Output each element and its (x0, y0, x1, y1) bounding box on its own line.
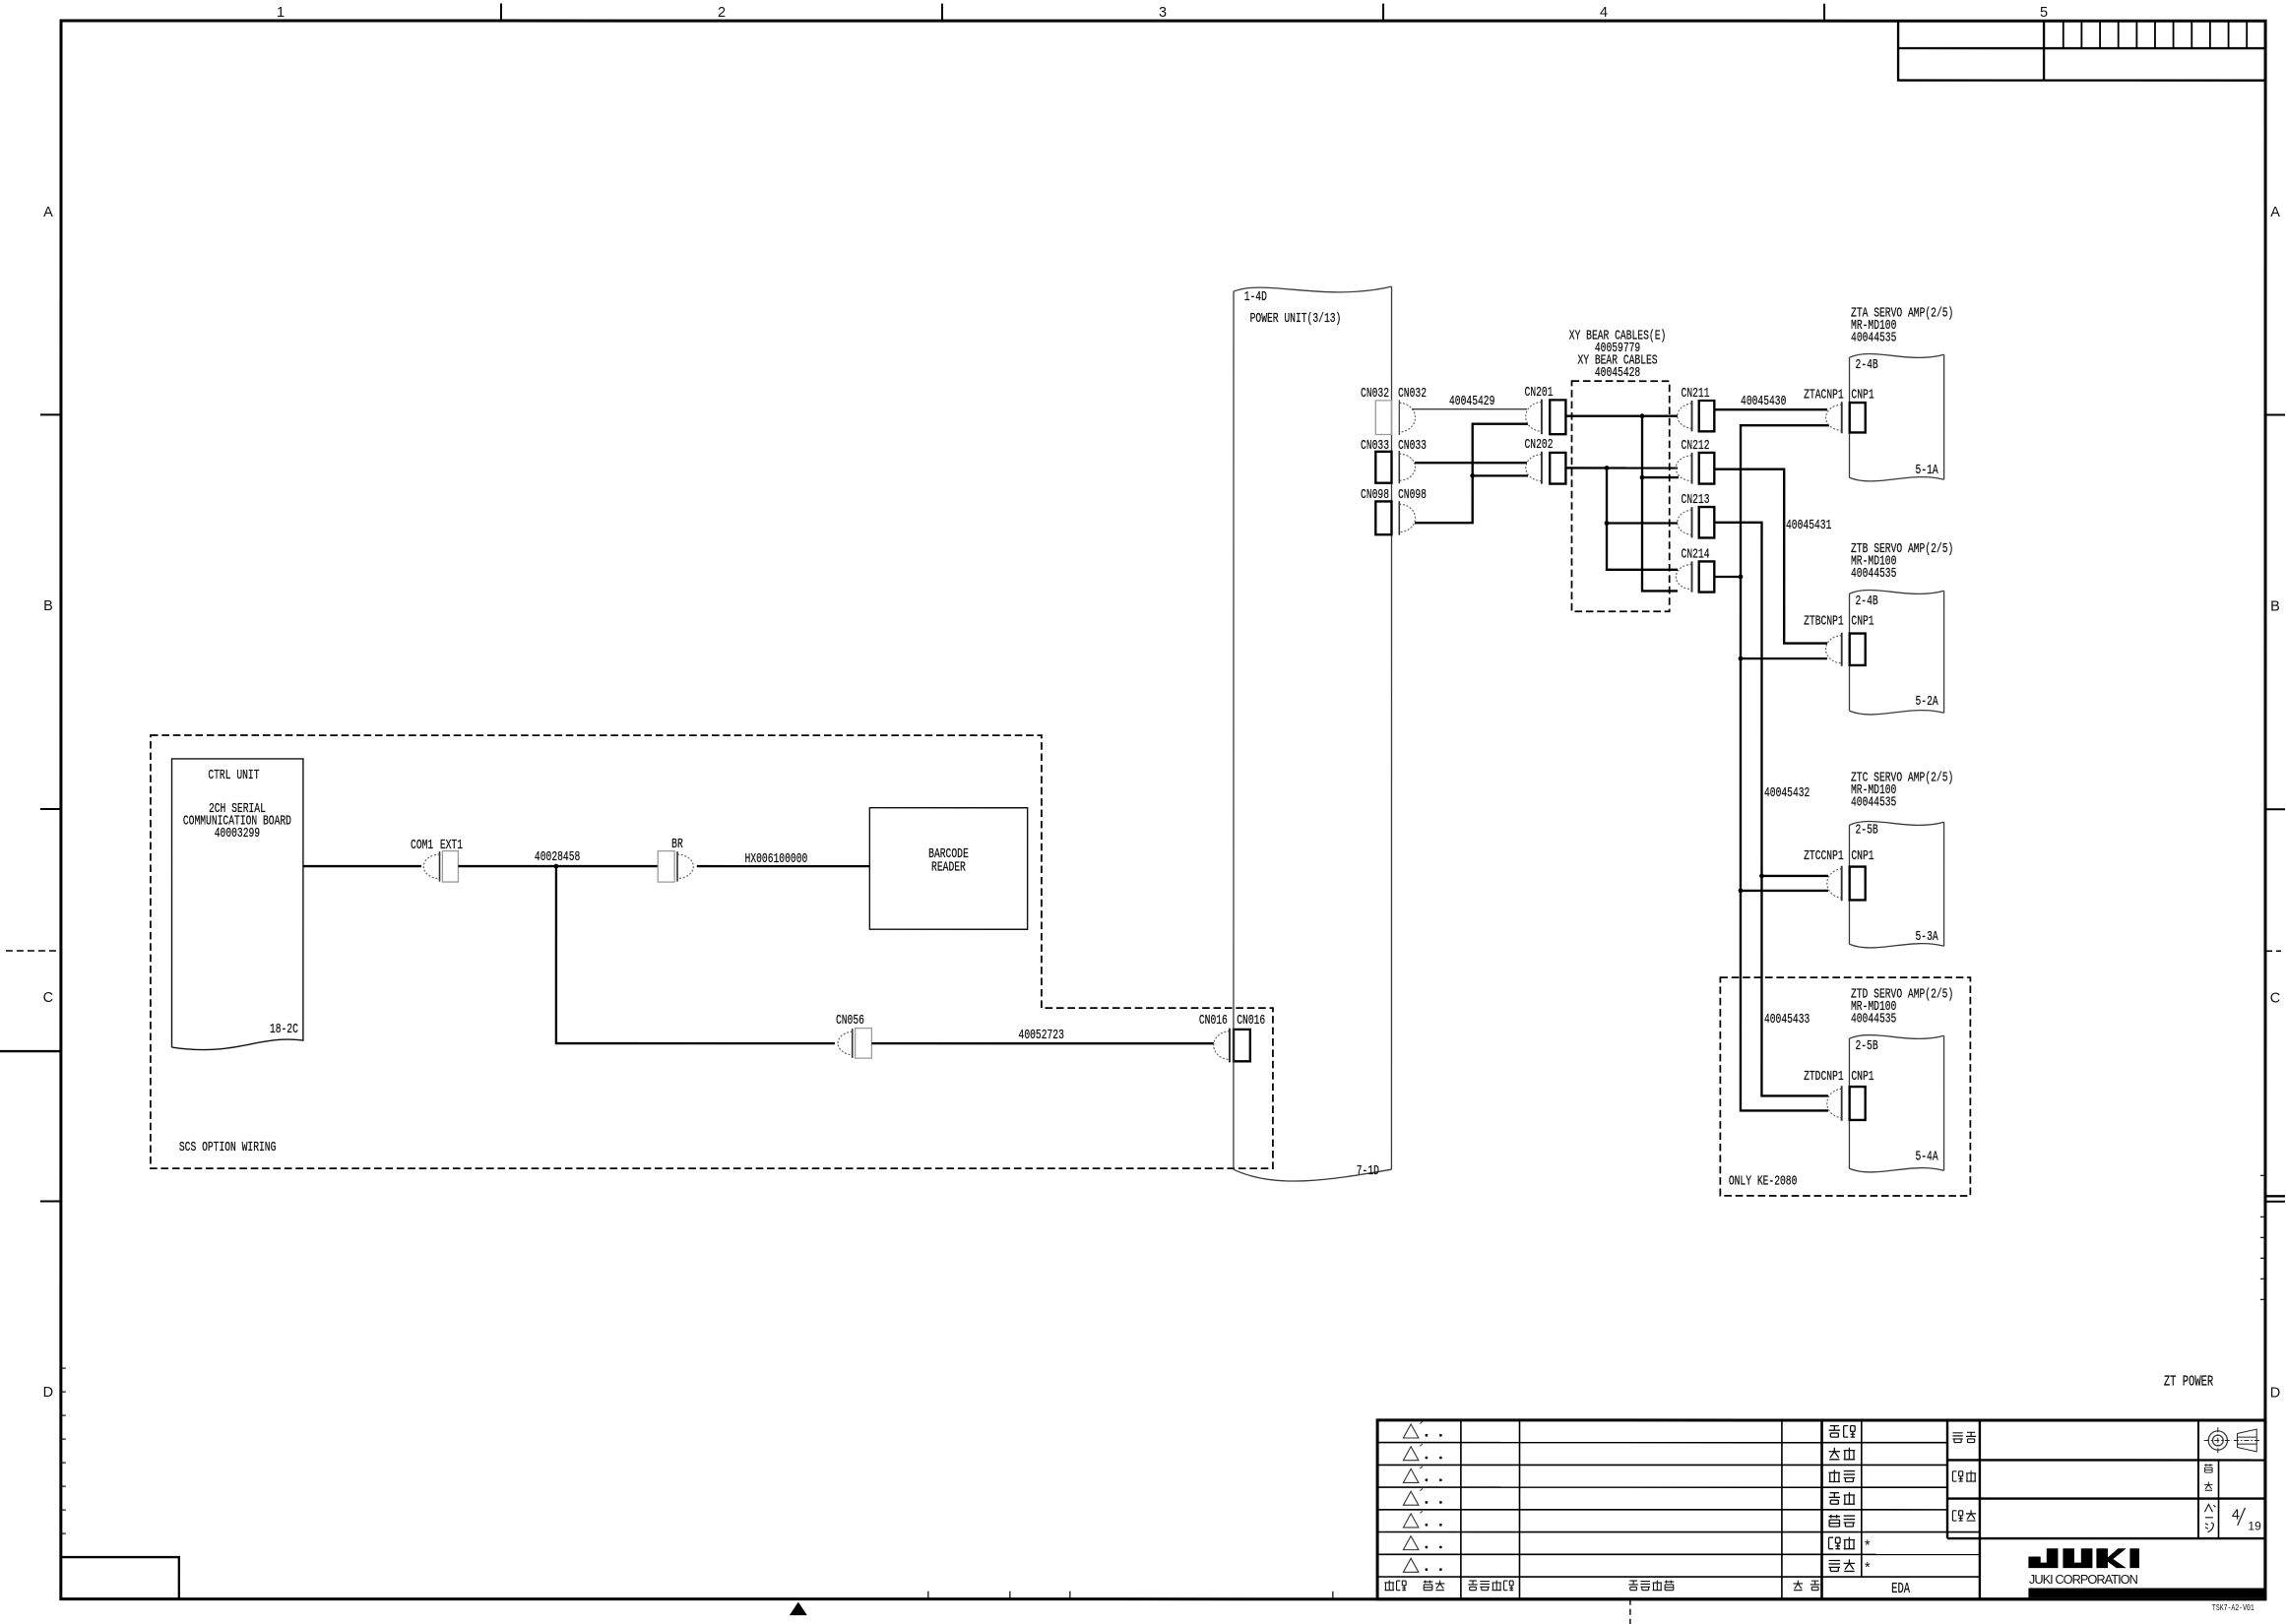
wire branch to CN202 lower contact (1473, 474, 1528, 476)
JUKI logo letter K (2096, 1548, 2108, 1568)
svg-text:CN212: CN212 (1682, 438, 1710, 454)
approval table column lines (1861, 1420, 1863, 1577)
bottom dashed registration line (1629, 1599, 1631, 1624)
connector CN211 (cable side) (1699, 401, 1715, 431)
bottom border ticks (927, 1592, 929, 1599)
svg-text:CNP1: CNP1 (1851, 848, 1873, 864)
svg-text:5-2A: 5-2A (1916, 694, 1939, 710)
revision triangle row 1 (1403, 1424, 1419, 1438)
connector CN033 (cable side) (1399, 454, 1415, 480)
wire branch to CN212 lower contact (1642, 476, 1679, 478)
svg-text:40045429: 40045429 (1449, 394, 1494, 409)
svg-text:CN016: CN016 (1199, 1013, 1228, 1029)
part info label 品名 (1952, 1511, 1962, 1521)
node junction dot ZTC upper branch (1759, 874, 1764, 879)
ZTA SERVO AMP box (wavy top/bottom) (1850, 354, 1944, 481)
svg-text:2-4B: 2-4B (1856, 357, 1878, 373)
svg-text:5-4A: 5-4A (1915, 1149, 1938, 1164)
fold mark solid right (2265, 1195, 2285, 1197)
revision date dots row 7 (1425, 1568, 1428, 1571)
svg-text:4: 4 (2232, 1507, 2240, 1523)
svg-text:40045431: 40045431 (1786, 518, 1831, 533)
svg-text:CN056: CN056 (836, 1013, 864, 1029)
connector CN212 (cable side) (1699, 453, 1715, 484)
svg-text:7-1D: 7-1D (1357, 1163, 1379, 1179)
connector CNP1 on ZTA (1850, 403, 1866, 432)
connector CN098 (cable side) (1399, 504, 1415, 531)
svg-text:CN202: CN202 (1525, 437, 1554, 453)
connector CN032 (unit side, reference/thin) (1375, 401, 1391, 435)
svg-text:CN211: CN211 (1682, 386, 1710, 402)
svg-text:C: C (43, 990, 53, 1006)
connector CN214 (cable side) (1699, 561, 1715, 592)
revision date dots row 1 (1426, 1434, 1429, 1437)
revision triangle row 3 (1403, 1468, 1419, 1482)
svg-text:B: B (43, 598, 53, 614)
node junction dot ZTC lower branch (1739, 889, 1744, 894)
ZTD SERVO AMP box (wavy top/bottom) (1849, 1035, 1943, 1172)
wire branch to ZTCCNP1 lower contact (1741, 890, 1828, 892)
JUKI logo letter U (2063, 1548, 2092, 1568)
svg-text:SCS OPTION WIRING: SCS OPTION WIRING (179, 1139, 277, 1155)
node junction dot CN214 wire (1739, 575, 1744, 580)
connector CN033 (unit side) (1375, 452, 1391, 483)
ONLY KE-2080 dashed box (1720, 977, 1970, 1196)
svg-text:CNP1: CNP1 (1851, 613, 1873, 629)
connector CN201 (cable side) (1526, 403, 1542, 432)
ruler ticks left border (61, 1367, 66, 1369)
svg-text:*: * (1865, 1559, 1871, 1576)
svg-text:CN201: CN201 (1525, 385, 1554, 401)
JUKI logo letter J (2028, 1548, 2058, 1568)
svg-text:2-5B: 2-5B (1855, 1038, 1877, 1054)
svg-text:40044535: 40044535 (1851, 565, 1896, 581)
svg-text:40045428: 40045428 (1595, 365, 1640, 381)
revision table header 変更記事 (1628, 1581, 1638, 1591)
svg-text:CNP1: CNP1 (1851, 1069, 1873, 1085)
revision date dots row 6 (1425, 1546, 1428, 1549)
revision date dots row 4 (1425, 1501, 1428, 1504)
approval table label 類似 (1829, 1560, 1841, 1571)
revision triangle row 7 (1403, 1558, 1419, 1572)
revision date dots row 2 (1426, 1457, 1429, 1460)
svg-text:COM1: COM1 (411, 837, 433, 852)
approval table label 保管 (1829, 1537, 1841, 1549)
connector CN214 (harness side) (1676, 564, 1691, 589)
JUKI black bar (2028, 1588, 2264, 1597)
svg-text:ZTDCNP1: ZTDCNP1 (1804, 1069, 1844, 1085)
svg-text:ZTCCNP1: ZTCCNP1 (1804, 848, 1844, 864)
JUKI logo letter I (2129, 1548, 2139, 1568)
connector ZTDCNP1 (1827, 1089, 1842, 1118)
connector CN202 (cable side) (1526, 455, 1542, 481)
revision date dots row 5 (1425, 1524, 1428, 1527)
wire CN056 to CN016 (871, 1042, 1214, 1044)
svg-text:CN214: CN214 (1682, 546, 1710, 562)
connector CN098 (unit side) (1375, 501, 1391, 534)
wire CN212 to ZTBCNP1 (cable 40045431) (1714, 469, 1827, 644)
node junction dot CN213 branch (1605, 521, 1610, 526)
SCS OPTION WIRING dashed boundary (151, 735, 1273, 1168)
revision table header 担当 (1794, 1581, 1804, 1591)
wire vertical bus x=1668 (1642, 416, 1678, 592)
svg-text:2-4B: 2-4B (1856, 593, 1878, 609)
approval table label 製図 (1829, 1493, 1841, 1505)
row zone ticks (right border) (2265, 414, 2285, 416)
connector CNP1 on ZTC (1850, 867, 1866, 901)
svg-text:CTRL UNIT: CTRL UNIT (208, 767, 259, 782)
third angle projection symbol circles (2208, 1431, 2227, 1450)
top-right revision strip table (1898, 21, 2265, 80)
wire CN214 to bus (1714, 576, 1741, 578)
connector COM1 (423, 854, 439, 879)
connector ZTCCNP1 (1827, 869, 1842, 899)
wire branch down from junction to CN056 (556, 866, 835, 1043)
svg-text:HX006100000: HX006100000 (745, 851, 808, 867)
svg-text:CN032: CN032 (1398, 386, 1427, 402)
node junction dot CN202 branch (1470, 473, 1475, 478)
wire CN213 to ZTC/ZTD upper contacts (cables 40045432/40045433) (1714, 523, 1828, 1096)
revision table header 記号 (1384, 1581, 1394, 1592)
connector CN202 (harness side) (1550, 453, 1565, 484)
svg-text:A: A (2270, 205, 2280, 220)
approval table row lines (1822, 1442, 1948, 1444)
svg-text:5-1A: 5-1A (1916, 463, 1939, 478)
svg-text:CN098: CN098 (1398, 487, 1427, 503)
svg-text:40052723: 40052723 (1019, 1028, 1064, 1043)
connector CN016 (power unit side) (1234, 1030, 1250, 1061)
svg-text:A: A (43, 205, 53, 220)
POWER UNIT outline (wavy top and bottom) (1234, 286, 1392, 1181)
revision table row lines (1377, 1442, 1821, 1444)
svg-text:ONLY KE-2080: ONLY KE-2080 (1729, 1173, 1798, 1189)
connector CN056 (838, 1031, 853, 1055)
approval table label 作成 (1829, 1515, 1841, 1527)
svg-text:CN033: CN033 (1361, 437, 1389, 453)
part info section row lines (1947, 1459, 2265, 1461)
svg-text:ZTACNP1: ZTACNP1 (1804, 387, 1844, 403)
title block outer frame (1377, 1420, 2265, 1599)
svg-text:BR: BR (671, 837, 683, 852)
svg-text:EDA: EDA (1891, 1580, 1910, 1596)
svg-text:C: C (2270, 990, 2280, 1006)
connector CN211 (harness side) (1678, 404, 1692, 428)
revision triangle row 6 (1403, 1536, 1419, 1550)
revision triangle row 4 (1403, 1491, 1419, 1505)
approval table label 検図 (1829, 1448, 1841, 1460)
revision table header 変更番号 (1468, 1581, 1478, 1591)
revision triangle row 5 (1403, 1514, 1419, 1528)
svg-text:40003299: 40003299 (215, 825, 260, 841)
bottom center registration triangle (790, 1602, 807, 1616)
page label ページ (vertical katakana) (2204, 1504, 2215, 1512)
wire branch to ZTBCNP1 lower contact (1741, 657, 1827, 659)
svg-text:40045430: 40045430 (1741, 394, 1786, 409)
svg-text:CN016: CN016 (1237, 1013, 1265, 1029)
svg-text:3: 3 (1159, 5, 1167, 21)
connector CN016 (cable side) (1214, 1031, 1230, 1060)
svg-text:1-4D: 1-4D (1244, 289, 1267, 305)
svg-text:CN213: CN213 (1682, 492, 1710, 508)
svg-text:5-3A: 5-3A (1915, 929, 1938, 945)
part info label 品番 (1952, 1471, 1962, 1481)
svg-text:ZT POWER: ZT POWER (2164, 1373, 2214, 1390)
revision triangle row 2 (1403, 1447, 1419, 1461)
svg-text:READER: READER (931, 859, 966, 875)
wire CN032 to CN201 (cable 40045429) (1412, 408, 1527, 410)
connector CNP1 on ZTB (1850, 634, 1866, 665)
svg-text:40045432: 40045432 (1764, 785, 1810, 801)
wire vertical bus x=1632 (1607, 468, 1678, 569)
approval table label 承認 (1829, 1426, 1841, 1438)
node junction dot CN212 lower branch (1640, 475, 1645, 480)
svg-text:CN032: CN032 (1361, 386, 1389, 402)
svg-text:40044535: 40044535 (1851, 1011, 1896, 1027)
svg-text:D: D (2270, 1385, 2280, 1401)
wire CTRL UNIT to COM1 (303, 865, 421, 867)
fold mark dashed left (6, 950, 61, 952)
approval table label 設計 (1829, 1469, 1841, 1482)
wire CN211 to ZTACNP1 (cable 40045430) (1714, 408, 1827, 410)
revision table header 日付 (1424, 1581, 1433, 1591)
svg-text:POWER UNIT(3/13): POWER UNIT(3/13) (1250, 311, 1342, 327)
projection symbol cone (2238, 1429, 2257, 1452)
wire EXT1 to BR with junction (458, 865, 658, 867)
scale label 尺度 (2204, 1464, 2212, 1472)
svg-text:40044535: 40044535 (1851, 330, 1896, 345)
svg-text:40044535: 40044535 (1851, 794, 1896, 810)
svg-text:4: 4 (1600, 5, 1608, 21)
projection symbol crosshair (2217, 1427, 2219, 1453)
wire branch to ZTCCNP1 upper contact (1761, 875, 1828, 877)
wire CN201 to CN211 (1565, 415, 1678, 417)
svg-text:B: B (2270, 598, 2280, 614)
column zone ticks (top border) (500, 4, 502, 22)
fold mark solid left (0, 1050, 61, 1052)
svg-text:5: 5 (2040, 5, 2048, 21)
connector ZTBCNP1 (1826, 636, 1842, 663)
XY BEAR CABLES dashed box (1571, 381, 1669, 611)
wire branch to CN213 contact (1607, 522, 1678, 524)
connector CN213 (harness side) (1678, 510, 1692, 534)
connector ZTACNP1 (1826, 405, 1842, 430)
CTRL UNIT box (wavy bottom) (171, 759, 302, 1050)
bottom-left corner box (61, 1557, 179, 1599)
node junction dot on CN202 wire (1605, 466, 1610, 470)
connector CN201 (harness side) (1550, 400, 1565, 434)
svg-text:1: 1 (277, 5, 285, 21)
wire BR to BARCODE READER (697, 865, 870, 867)
svg-text:EXT1: EXT1 (440, 837, 463, 852)
row zone ticks (left border) (40, 413, 61, 415)
part info label 型式 (1952, 1433, 1962, 1443)
svg-text:CN098: CN098 (1361, 487, 1389, 503)
ZTB SERVO AMP box (wavy top/bottom) (1849, 591, 1943, 715)
fold mark dashed right (2265, 950, 2281, 952)
svg-text:2-5B: 2-5B (1855, 822, 1877, 838)
node junction dot on CN201 wire (1640, 413, 1645, 418)
svg-text:40028458: 40028458 (535, 849, 580, 865)
ZTC SERVO AMP box (wavy top/bottom) (1849, 822, 1943, 948)
node junction dot (554, 864, 559, 869)
svg-text:*: * (1865, 1536, 1871, 1553)
svg-text:19: 19 (2248, 1519, 2261, 1532)
connector CNP1 on ZTD (1850, 1087, 1866, 1120)
connector CN213 (cable side) (1699, 507, 1715, 537)
svg-text:40045433: 40045433 (1764, 1012, 1810, 1028)
wire CN202 to CN212 (1565, 467, 1678, 468)
wire CN033 to CN202 (1415, 462, 1527, 464)
svg-text:18-2C: 18-2C (270, 1021, 298, 1036)
connector CN212 (harness side) (1676, 456, 1691, 481)
wire CN098 up to CN201/CN202 lower contacts (1415, 424, 1528, 524)
svg-text:CNP1: CNP1 (1851, 387, 1873, 403)
connector BR (658, 851, 674, 883)
svg-text:CN033: CN033 (1398, 437, 1427, 453)
connector CN032 (cable side) (1399, 403, 1415, 432)
BARCODE READER box (869, 808, 1027, 930)
revision table column lines (1460, 1420, 1462, 1599)
svg-text:D: D (43, 1385, 53, 1401)
svg-text:ZTBCNP1: ZTBCNP1 (1804, 613, 1844, 629)
svg-text:JUKI CORPORATION: JUKI CORPORATION (2029, 1572, 2139, 1587)
svg-text:2: 2 (718, 5, 726, 21)
node junction dot ZTB lower branch (1739, 656, 1744, 661)
svg-text:TSK7-A2-V01: TSK7-A2-V01 (2212, 1603, 2254, 1613)
connector EXT1 (442, 851, 458, 883)
wire CN214 to ZTA-D lower contacts bus x=1768 (1741, 425, 1829, 1110)
revision date dots row 3 (1426, 1478, 1429, 1481)
ruler ticks right border (2260, 1174, 2265, 1176)
